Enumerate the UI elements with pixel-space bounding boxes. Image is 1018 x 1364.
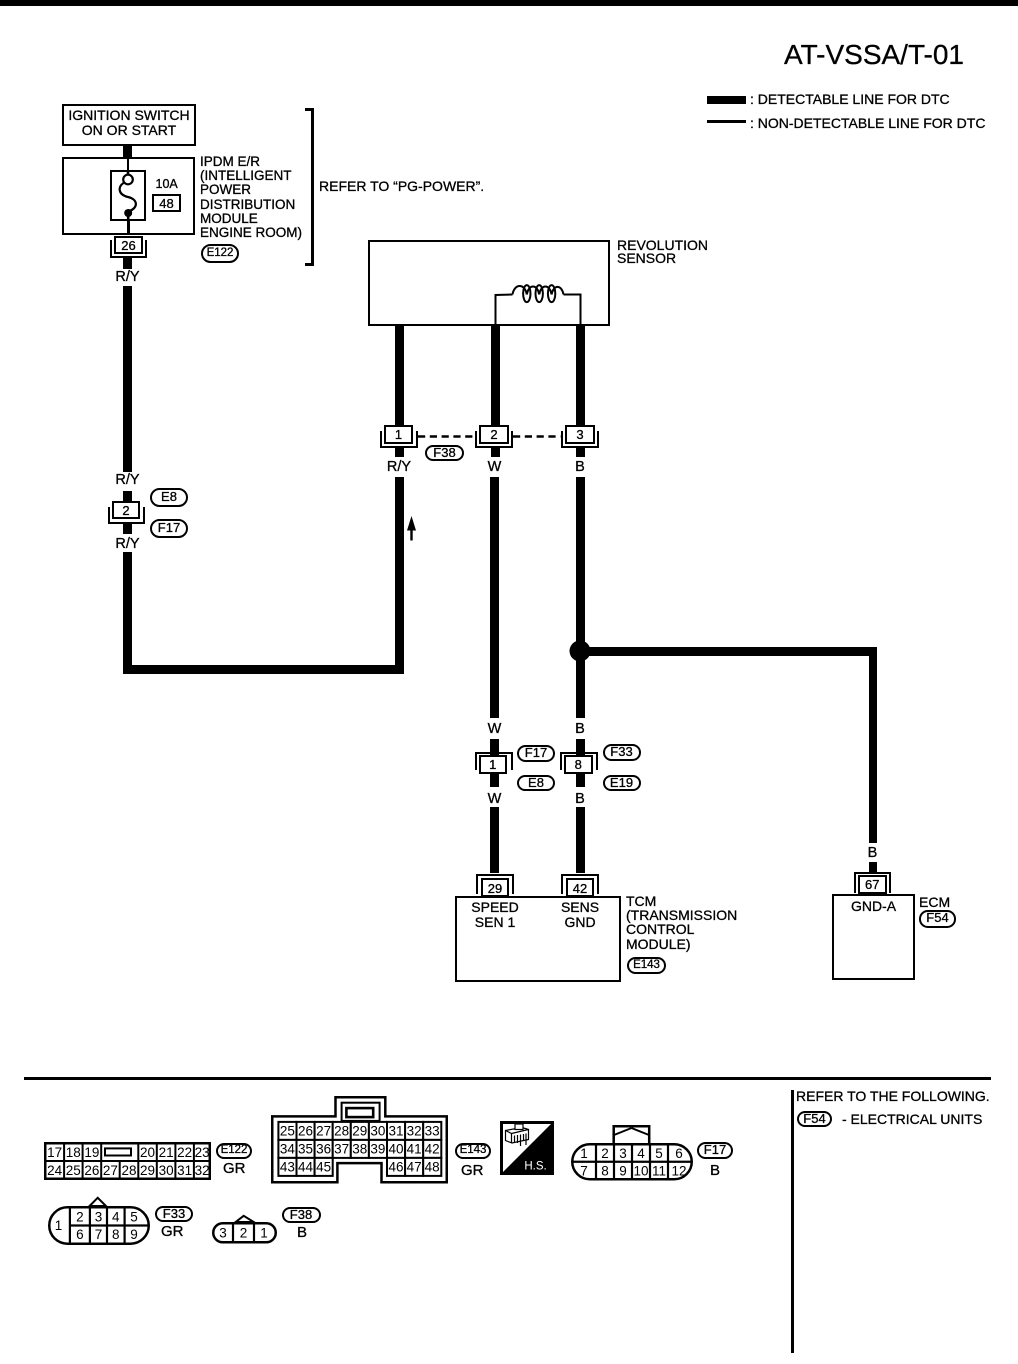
label GR <box>461 1164 484 1178</box>
svg-text:6: 6 <box>675 1146 683 1161</box>
wire: R/Y vertical to horizontal run <box>395 477 404 674</box>
connector label E8 oval <box>150 488 188 507</box>
svg-text:45: 45 <box>316 1159 331 1174</box>
svg-text:7: 7 <box>95 1227 103 1242</box>
svg-text:12: 12 <box>671 1163 686 1178</box>
svg-text:19: 19 <box>84 1145 99 1160</box>
connector pin 42 (TCM) <box>561 874 599 894</box>
connector label E8 oval <box>517 775 555 791</box>
IPDM E/R label text <box>200 155 302 240</box>
connector pin 1 (F17/E8) <box>475 752 513 770</box>
connector face E143 <box>271 1096 448 1184</box>
wire stub above connector 1 <box>490 739 499 755</box>
connector label F17 oval (footer) <box>697 1142 733 1159</box>
svg-text:5: 5 <box>130 1210 138 1225</box>
wire: B drop to ECM <box>869 647 878 843</box>
wire label B <box>530 722 630 736</box>
revolution sensor box <box>368 240 610 326</box>
svg-text:5: 5 <box>655 1146 663 1161</box>
svg-text:18: 18 <box>66 1145 81 1160</box>
connector label E19 oval <box>603 775 641 791</box>
svg-text:7: 7 <box>580 1163 588 1178</box>
wire stub below pin 1 <box>395 448 404 457</box>
connector pin 8 (F33/E19) <box>560 752 598 770</box>
svg-text:26: 26 <box>298 1123 313 1138</box>
legend: detectable line swatch <box>707 96 746 104</box>
wire: B vertical middle <box>576 477 585 718</box>
svg-text:11: 11 <box>652 1163 666 1178</box>
svg-text:25: 25 <box>66 1163 81 1178</box>
connector label E122 oval (footer) <box>216 1143 252 1159</box>
label GR <box>223 1162 246 1176</box>
svg-text:28: 28 <box>121 1163 136 1178</box>
svg-text:3: 3 <box>95 1210 103 1225</box>
wire: B to TCM <box>576 807 585 873</box>
svg-text:22: 22 <box>177 1145 192 1160</box>
wire: sensor pin 3 drop <box>576 326 585 425</box>
svg-text:2: 2 <box>601 1146 609 1161</box>
label ECM <box>919 895 950 909</box>
svg-text:44: 44 <box>298 1159 314 1174</box>
wire stub below connector 8 <box>576 774 585 787</box>
svg-text:27: 27 <box>103 1163 118 1178</box>
svg-text:30: 30 <box>159 1163 174 1178</box>
connector label F54 oval <box>919 910 956 928</box>
bracket: refer to PG-POWER <box>305 108 314 111</box>
svg-text:34: 34 <box>280 1141 296 1156</box>
wire: horizontal branch to ECM <box>580 647 877 656</box>
fuse 10A box <box>110 170 146 221</box>
svg-text:9: 9 <box>619 1163 627 1178</box>
svg-text:3: 3 <box>219 1226 227 1241</box>
svg-text:42: 42 <box>425 1141 440 1156</box>
connector face E122 <box>44 1142 211 1180</box>
wire stub above connector 2 <box>123 491 132 501</box>
connector label E122 oval <box>201 244 239 263</box>
connector label F17 oval <box>150 519 188 538</box>
label 10A <box>156 177 178 191</box>
svg-text:39: 39 <box>370 1141 385 1156</box>
wire label W <box>445 460 545 474</box>
connector face F17 <box>571 1125 693 1181</box>
svg-text:24: 24 <box>47 1163 63 1178</box>
svg-text:47: 47 <box>407 1159 422 1174</box>
label REFER TO PG-POWER <box>319 179 484 193</box>
svg-text:2: 2 <box>240 1226 248 1241</box>
connector label F54 oval (footer) <box>797 1111 832 1127</box>
label GR <box>161 1225 184 1239</box>
svg-text:20: 20 <box>140 1145 155 1160</box>
svg-text:2: 2 <box>76 1210 84 1225</box>
svg-text:6: 6 <box>76 1227 84 1242</box>
connector face F38 <box>212 1215 277 1244</box>
svg-text:40: 40 <box>388 1141 403 1156</box>
connector pin 2 (E8/F17) <box>108 507 146 524</box>
svg-text:25: 25 <box>280 1123 295 1138</box>
label REVOLUTION SENSOR <box>617 239 708 267</box>
svg-text:26: 26 <box>84 1163 99 1178</box>
connector label F38 oval <box>425 445 464 461</box>
svg-text:4: 4 <box>637 1146 645 1161</box>
label ELECTRICAL UNITS <box>842 1112 982 1126</box>
label SPEED SEN 1 <box>455 900 535 929</box>
wire stub below pin 3 <box>576 448 585 457</box>
wire: W to TCM <box>490 807 499 873</box>
wire: R/Y left vertical lower <box>123 552 132 674</box>
wire: fuse to IPDM bottom <box>127 221 130 235</box>
svg-text:29: 29 <box>140 1163 155 1178</box>
junction dot <box>569 640 591 662</box>
svg-text:33: 33 <box>425 1123 440 1138</box>
svg-text:46: 46 <box>388 1159 403 1174</box>
wire label R/Y <box>349 460 449 474</box>
legend: non-detectable line swatch <box>707 120 746 123</box>
wire label W <box>445 792 545 806</box>
wire label B <box>530 460 630 474</box>
svg-text:8: 8 <box>112 1227 120 1242</box>
wire stub above pin 67 <box>869 862 878 872</box>
svg-text:32: 32 <box>407 1123 422 1138</box>
connector label E143 oval <box>627 957 666 974</box>
svg-text:41: 41 <box>407 1141 422 1156</box>
label SENS GND <box>540 900 620 929</box>
svg-text:3: 3 <box>619 1146 627 1161</box>
connector pin 2 (F38) <box>475 431 514 448</box>
dashed link pin1-pin2 <box>418 435 475 438</box>
label B <box>297 1226 307 1240</box>
connector pin 3 (F38) <box>561 431 600 448</box>
coil (sensor winding) <box>368 240 610 326</box>
wire: sensor pin 1 drop <box>395 326 404 425</box>
connector label F17 oval <box>517 745 555 762</box>
svg-text:23: 23 <box>195 1145 210 1160</box>
wire: R/Y left vertical upper <box>123 286 132 472</box>
svg-text:31: 31 <box>388 1123 403 1138</box>
title AT-VSSA/T-01 <box>784 43 964 67</box>
top border bar <box>0 0 1018 6</box>
connector label F33 oval (footer) <box>155 1206 193 1222</box>
svg-text:1: 1 <box>580 1146 588 1161</box>
wire label R/Y <box>78 473 178 487</box>
ECM box <box>832 894 915 980</box>
connector label F33 oval <box>603 744 641 761</box>
legend: detectable line text <box>750 92 950 106</box>
connector pin 67 (ECM) <box>854 872 891 894</box>
svg-text:1: 1 <box>55 1218 63 1233</box>
separator line <box>24 1077 991 1080</box>
fuse number 48 box <box>152 194 181 212</box>
svg-text:10: 10 <box>633 1163 648 1178</box>
svg-text:4: 4 <box>112 1210 120 1225</box>
vertical divider right <box>791 1090 794 1353</box>
wire: sensor pin 2 drop <box>491 326 500 425</box>
wire label B <box>530 792 630 806</box>
H.S. hand symbol <box>500 1121 554 1175</box>
svg-text:8: 8 <box>601 1163 609 1178</box>
svg-text:43: 43 <box>280 1159 295 1174</box>
wire stub below pin 26 <box>123 258 132 269</box>
wire stub below connector 1 <box>490 774 499 787</box>
svg-text:35: 35 <box>298 1141 313 1156</box>
label B <box>710 1164 720 1178</box>
wire: IPDM top to fuse <box>127 157 130 171</box>
svg-text:1: 1 <box>260 1226 268 1241</box>
connector pin 1 (F38) <box>380 431 418 448</box>
IPDM E/R box <box>62 157 195 235</box>
svg-text:29: 29 <box>352 1123 367 1138</box>
wire label R/Y <box>78 270 178 284</box>
svg-text:27: 27 <box>316 1123 331 1138</box>
wire stub below pin 2 <box>491 448 500 457</box>
label REFER TO THE FOLLOWING. <box>796 1089 990 1103</box>
wire label R/Y <box>78 537 178 551</box>
connector face F33 <box>48 1197 150 1245</box>
TCM box <box>455 896 621 982</box>
connector label F38 oval (footer) <box>282 1207 321 1223</box>
svg-text:48: 48 <box>425 1159 440 1174</box>
wire: bottom horizontal run <box>123 665 404 674</box>
svg-text:9: 9 <box>130 1227 138 1242</box>
svg-text:36: 36 <box>316 1141 331 1156</box>
svg-text:32: 32 <box>195 1163 210 1178</box>
label TCM (TRANSMISSION CONTROL MODULE) <box>626 894 737 951</box>
arrow up beside R/Y wire <box>406 516 417 541</box>
connector pin 26 (IPDM E/R) <box>110 240 147 258</box>
wire label W <box>445 722 545 736</box>
wire: W vertical middle <box>490 477 499 718</box>
wire: ignition switch to IPDM <box>123 146 132 157</box>
svg-text:21: 21 <box>159 1145 174 1160</box>
wire stub below connector 2 <box>123 524 132 534</box>
connector pin 29 (TCM) <box>476 874 514 894</box>
svg-text:31: 31 <box>177 1163 192 1178</box>
svg-text:30: 30 <box>370 1123 385 1138</box>
ignition switch box <box>62 104 196 146</box>
connector label E143 oval (footer) <box>455 1143 491 1159</box>
fuse symbol <box>110 170 146 221</box>
svg-text:17: 17 <box>47 1145 62 1160</box>
svg-text:37: 37 <box>334 1141 349 1156</box>
wire label B <box>823 846 923 860</box>
svg-text:38: 38 <box>352 1141 367 1156</box>
svg-text:H.S.: H.S. <box>524 1161 546 1173</box>
svg-text:28: 28 <box>334 1123 349 1138</box>
wire stub above connector 8 <box>576 739 585 755</box>
dashed link pin2-pin3 <box>513 435 561 438</box>
legend: non-detectable line text <box>750 116 985 130</box>
label GND-A <box>832 899 915 913</box>
